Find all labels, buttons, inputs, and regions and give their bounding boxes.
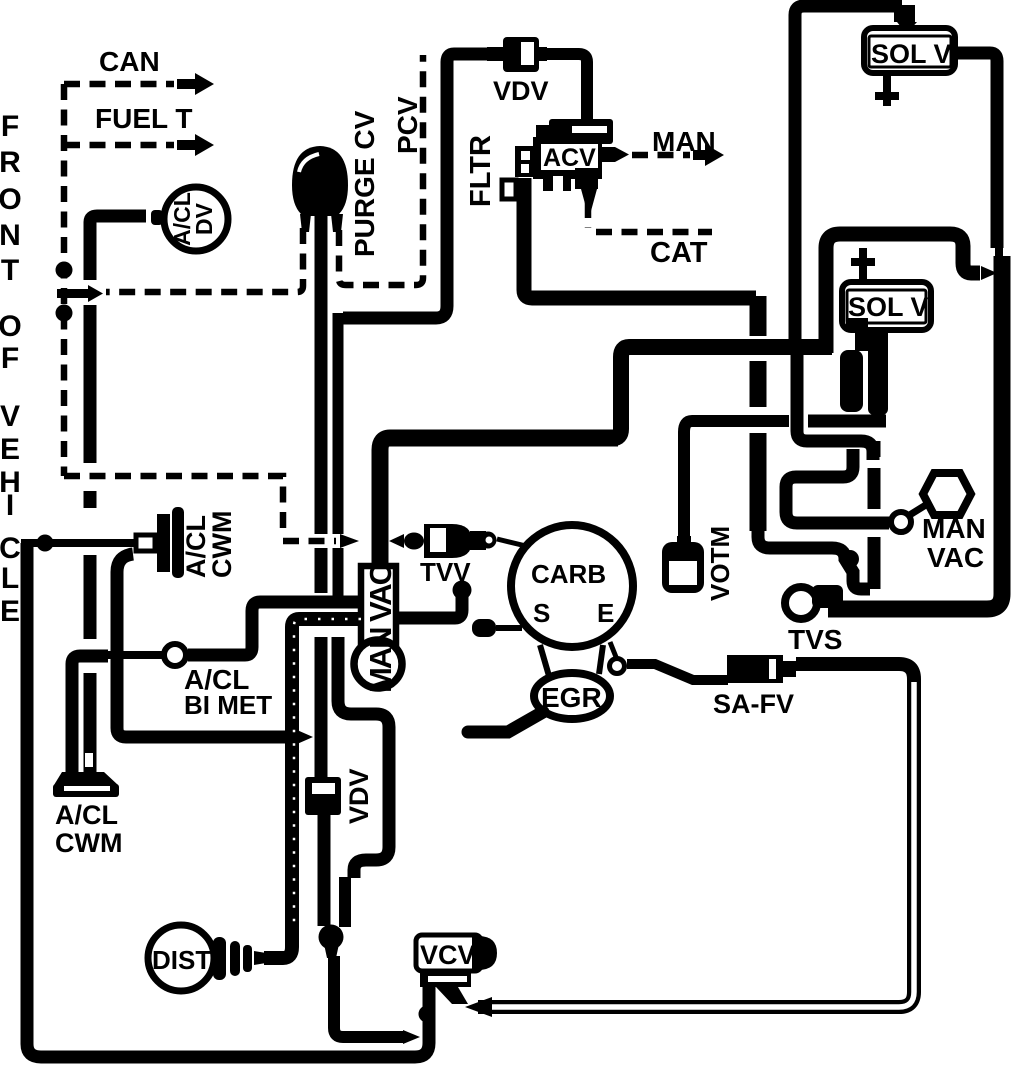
arrow FUEL T bbox=[177, 134, 214, 156]
solenoid SOL V 1: feed from left line bbox=[795, 6, 902, 340]
hose y347 to x620 corner bbox=[613, 347, 832, 438]
svg-text:CARB: CARB bbox=[531, 559, 606, 589]
svg-text:BI MET: BI MET bbox=[184, 690, 272, 720]
svg-text:N: N bbox=[0, 219, 21, 252]
solenoid SOL V 1 box bbox=[864, 28, 955, 73]
EGR neck lines bbox=[540, 645, 549, 676]
blob left leg bbox=[300, 214, 311, 232]
fitting MAN VAC hexagon bbox=[923, 473, 971, 515]
hose solenoid2 drain y421 right part bbox=[808, 415, 886, 428]
hose x758 stub bbox=[750, 361, 767, 407]
svg-text:V: V bbox=[0, 400, 20, 433]
valve ACV left B fitting bbox=[515, 146, 535, 177]
hose dashed left vertical bbox=[61, 84, 68, 476]
fitting cap bbox=[453, 581, 472, 600]
port hole in hose bbox=[85, 753, 93, 767]
hose dashed into MAN VAC tube bbox=[283, 538, 336, 545]
hose feed into tube from y438 run bbox=[380, 438, 618, 572]
hose thin to ring bbox=[100, 651, 162, 659]
hose outlined tube-left to DIST bbox=[264, 619, 361, 958]
motor A/CL CWM top: nipple bbox=[136, 535, 155, 551]
hose TVV to CARB bbox=[497, 539, 526, 546]
valve TVV right nipple with hole bbox=[470, 531, 486, 550]
valve ACV lower-left square port bbox=[502, 180, 516, 199]
SOL V 2 cross bbox=[851, 248, 875, 282]
hose right line lower (wide) down to TVS run bbox=[828, 256, 1002, 609]
svg-text:O: O bbox=[0, 183, 22, 216]
valve VDV (top) body bbox=[503, 37, 539, 72]
highlight in blob bbox=[299, 154, 319, 172]
fitting bulb bbox=[319, 925, 344, 950]
fitting S-hose lug bbox=[472, 619, 496, 637]
hose x758 lower to TVS area bbox=[750, 433, 767, 531]
hose VDV right to ACV bbox=[546, 54, 587, 122]
hose x797 with corner to x873 bbox=[797, 352, 873, 460]
hose y656 short bbox=[72, 656, 108, 772]
hose x795 stub between runs bbox=[791, 357, 802, 423]
motor A/CL CWM top: body bbox=[157, 514, 170, 572]
svg-text:EGR: EGR bbox=[541, 682, 602, 713]
svg-text:E: E bbox=[0, 433, 20, 466]
svg-text:F: F bbox=[1, 110, 19, 143]
hose dashed purge left leg down and left bbox=[106, 228, 303, 292]
valve VCV box bbox=[416, 935, 481, 971]
link to hexagon bbox=[908, 503, 929, 516]
hose left thick x90 segments bbox=[84, 305, 97, 463]
hose dashed to CAT bbox=[585, 202, 592, 228]
hose VOTM corner and y421 left part bbox=[684, 421, 789, 547]
hose tube-right with capped riser bbox=[396, 594, 462, 618]
node ring A/CL BI MET bbox=[164, 644, 186, 666]
svg-text:L: L bbox=[1, 562, 19, 595]
valve VDV (lower) box bbox=[305, 777, 341, 815]
hose x874 segments down to TVS bbox=[868, 441, 881, 457]
hose A/CL DV to left bbox=[90, 216, 146, 280]
svg-text:DV: DV bbox=[191, 202, 217, 235]
svg-text:A/CL: A/CL bbox=[55, 800, 118, 830]
svg-text:E: E bbox=[597, 598, 614, 628]
svg-text:SA-FV: SA-FV bbox=[713, 689, 794, 719]
arrow tip at VCV vertical bbox=[403, 1030, 420, 1044]
valve TVV arrow left bbox=[389, 534, 404, 548]
svg-text:S: S bbox=[533, 598, 550, 628]
hose ACV drain down-right bbox=[524, 178, 756, 298]
hose dashed CAN bbox=[64, 81, 174, 88]
node dot on VCV riser bbox=[419, 1006, 436, 1023]
svg-text:MAN VAC: MAN VAC bbox=[363, 563, 398, 693]
hose purge main down bbox=[315, 215, 328, 534]
DIST cone ribs bbox=[213, 937, 226, 980]
node small circle bbox=[891, 512, 911, 532]
hose ring to MAN VAC tube bbox=[188, 602, 360, 655]
TVS lug bbox=[812, 585, 843, 608]
svg-text:CAN: CAN bbox=[99, 46, 160, 77]
arrow into right line bbox=[981, 266, 997, 280]
svg-text:T: T bbox=[1, 254, 19, 287]
VCV neck to loop bbox=[436, 987, 468, 1004]
sensor TVS circle bbox=[785, 587, 817, 619]
valve ACV label window bbox=[541, 144, 598, 170]
arrow BI MET tip bbox=[297, 730, 313, 744]
arrow MAN bbox=[693, 144, 724, 166]
hose dashed MAN bbox=[632, 152, 690, 159]
svg-text:VDV: VDV bbox=[493, 76, 549, 106]
carburetor CARB circle bbox=[511, 525, 633, 647]
valve ACV right arrow nipple bbox=[601, 147, 629, 162]
svg-text:O: O bbox=[0, 310, 22, 343]
hose bulb to VCV vertical bbox=[334, 956, 404, 1037]
svg-text:CWM: CWM bbox=[207, 511, 237, 578]
hose dashed FUEL T bbox=[64, 142, 174, 149]
svg-text:E: E bbox=[0, 595, 20, 628]
VCV collar bbox=[420, 971, 471, 987]
fitting pinch on right line bbox=[995, 246, 1003, 260]
hose VDV wire left down to tube area bbox=[343, 54, 487, 318]
svg-text:FUEL T: FUEL T bbox=[95, 103, 192, 134]
DIST tip and elbow bbox=[254, 951, 272, 965]
hose SA-FV right and big loop to VCV (outlined) bbox=[478, 664, 914, 1007]
hose A/CL BI MET run bbox=[117, 554, 298, 737]
svg-text:R: R bbox=[0, 146, 21, 179]
hose VDV down to bulb bbox=[318, 815, 331, 926]
EGR stub hose bbox=[468, 712, 543, 732]
valve A/CL DV circle bbox=[164, 187, 228, 251]
hose SOL V 1 right to main right line bbox=[953, 53, 997, 248]
svg-text:PURGE CV: PURGE CV bbox=[349, 110, 380, 257]
hose left vertical + bottom run + VCV riser bbox=[27, 543, 429, 1057]
svg-text:MAN: MAN bbox=[922, 513, 986, 544]
svg-text:VOTM: VOTM bbox=[705, 526, 735, 601]
svg-text:F: F bbox=[1, 342, 19, 375]
svg-text:VAC: VAC bbox=[927, 542, 984, 573]
node dot on dashed line 2 bbox=[56, 305, 73, 322]
svg-text:DIST: DIST bbox=[152, 945, 211, 975]
valve ACV bottom blocks bbox=[543, 170, 571, 191]
svg-text:CWM: CWM bbox=[55, 828, 122, 858]
hose dashed to A/CL CWM box bbox=[64, 476, 283, 533]
valve SA-FV bbox=[727, 655, 783, 683]
svg-text:ACV: ACV bbox=[543, 144, 596, 172]
valve ACV leg to CAT bbox=[581, 189, 597, 211]
svg-text:VCV: VCV bbox=[420, 940, 476, 970]
svg-text:FLTR: FLTR bbox=[465, 135, 497, 207]
pipe MAN VAC bulb bbox=[354, 640, 402, 688]
hose y231 from x825 to SOL V 2 arrow bbox=[826, 234, 980, 353]
svg-text:CAT: CAT bbox=[650, 237, 708, 269]
hose E to SA-FV bbox=[627, 664, 728, 680]
VCV taper into loop bbox=[465, 997, 492, 1017]
hose x338 lower elbow to VDV bypass bbox=[338, 637, 389, 878]
node dot on dashed line bbox=[56, 262, 73, 279]
svg-text:SOL V: SOL V bbox=[871, 39, 952, 69]
svg-text:SOL V: SOL V bbox=[848, 292, 929, 322]
hose thin y543 with junction bbox=[21, 539, 140, 547]
pipe MAN VAC tube outline bbox=[361, 566, 396, 648]
node E-port ring bbox=[610, 642, 616, 657]
arrow CAN bbox=[177, 73, 214, 95]
svg-text:PCV: PCV bbox=[392, 96, 423, 154]
label FRONT OF VEHICLE bbox=[0, 110, 22, 628]
blob right leg bbox=[331, 214, 343, 232]
valve VOTM body bbox=[677, 536, 691, 548]
SOL V 1 cross bbox=[875, 73, 899, 106]
EGR ellipse bbox=[534, 673, 610, 719]
svg-text:C: C bbox=[0, 532, 21, 565]
arrow into A/CL hose bbox=[57, 285, 103, 302]
valve TVV left nipple bbox=[404, 533, 424, 550]
fitting nub at A/CL DV bbox=[151, 210, 163, 225]
solenoid SOL V 2 box bbox=[842, 282, 931, 330]
svg-text:TVS: TVS bbox=[788, 624, 842, 655]
svg-text:I: I bbox=[6, 489, 14, 522]
arrow dashed tip bbox=[340, 534, 359, 548]
valve ACV body around label bbox=[533, 137, 602, 179]
solenoid SOL V 2 body below bbox=[846, 318, 868, 332]
valve ACV body top bar bbox=[549, 119, 613, 144]
valve TVV body bbox=[424, 524, 472, 558]
svg-text:VDV: VDV bbox=[344, 768, 374, 824]
distributor DIST circle bbox=[148, 925, 214, 991]
hose dashed purge right leg to PCV bbox=[339, 55, 423, 285]
filter PURGE CV blob bbox=[292, 146, 348, 216]
motor A/CL CWM bottom plate bbox=[54, 772, 118, 785]
hose stair to small circle bbox=[786, 449, 889, 523]
